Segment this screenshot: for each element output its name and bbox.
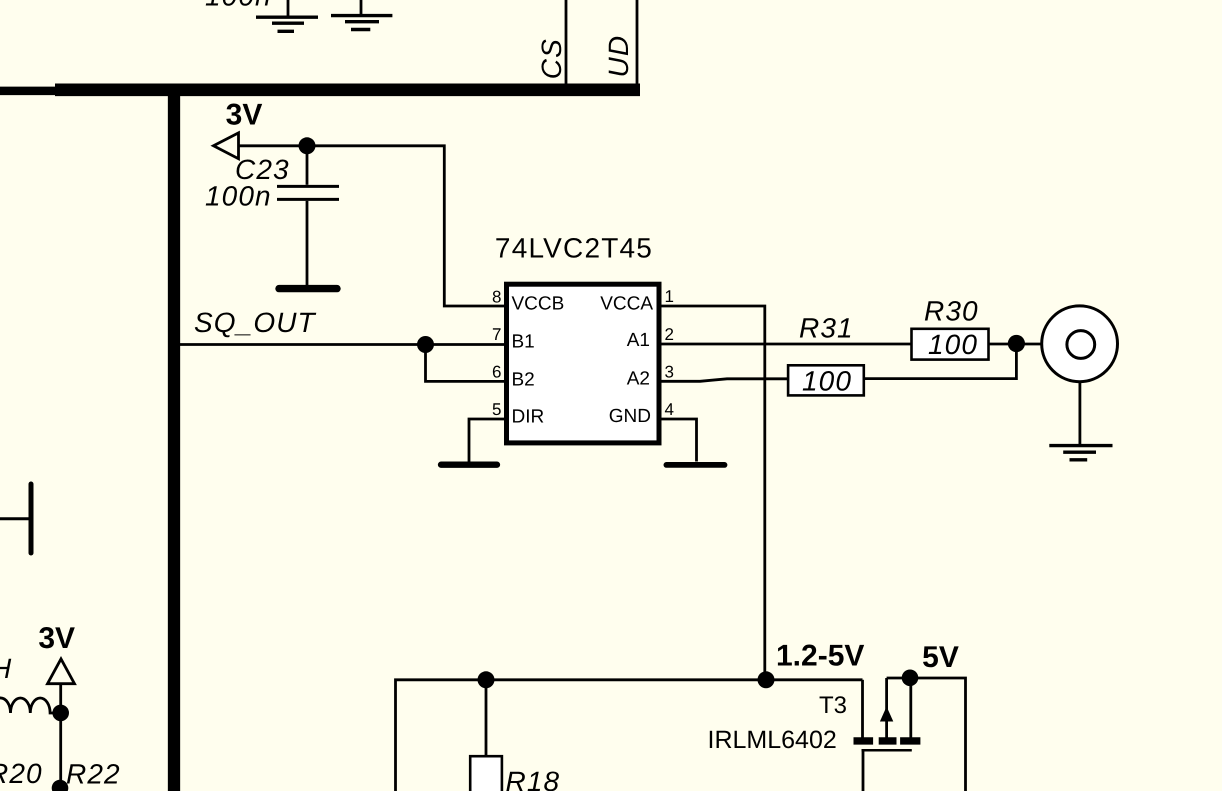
wire to B2 bbox=[426, 345, 507, 382]
svg-text:A2: A2 bbox=[627, 368, 650, 389]
junction dot 1.2-5V bbox=[758, 671, 775, 688]
wire C23 top bbox=[306, 146, 309, 185]
connector X1 inner pin bbox=[1067, 331, 1095, 359]
svg-text:1.2-5V: 1.2-5V bbox=[776, 640, 864, 673]
transistor T3 bulk wire with arrow bbox=[885, 678, 888, 740]
ground bbox=[256, 0, 318, 31]
resistor R31 body bbox=[788, 365, 864, 395]
svg-text:100n: 100n bbox=[205, 181, 272, 212]
pin names left bbox=[512, 294, 565, 428]
transistor T3 channel bars bbox=[854, 737, 921, 744]
op IC body 74LVC2T45 bbox=[507, 284, 660, 443]
wire A1 to R30 bbox=[659, 343, 912, 346]
svg-text:74LVC2T45: 74LVC2T45 bbox=[495, 233, 653, 264]
ground bbox=[1049, 446, 1112, 460]
capacitor C23 plates bbox=[277, 185, 339, 188]
junction dot coil/3V bbox=[52, 705, 69, 722]
junction dot 5V source bbox=[902, 670, 919, 687]
bus wire horizontal main bbox=[55, 84, 640, 97]
svg-text:4: 4 bbox=[665, 400, 674, 419]
capacitor plate (left edge) bbox=[29, 484, 34, 553]
svg-text:R31: R31 bbox=[799, 313, 854, 344]
svg-text:1: 1 bbox=[665, 287, 674, 306]
svg-text:100: 100 bbox=[928, 329, 978, 360]
wire capacitor left bbox=[0, 517, 29, 520]
wire 3V to VCCB bbox=[239, 146, 507, 306]
wire 3V down bbox=[59, 684, 62, 788]
svg-text:SQ_OUT: SQ_OUT bbox=[194, 307, 317, 338]
wire DIR to ground bbox=[469, 419, 506, 462]
ground bbox=[331, 0, 392, 30]
svg-text:CS: CS bbox=[536, 38, 567, 79]
junction dot R18 bbox=[478, 671, 495, 688]
svg-text:A1: A1 bbox=[627, 330, 650, 351]
ground bar GND bbox=[666, 462, 724, 468]
wire SQ_OUT to B1 bbox=[180, 343, 506, 346]
svg-text:B1: B1 bbox=[512, 331, 535, 352]
svg-text:R18: R18 bbox=[506, 766, 561, 791]
svg-text:3: 3 bbox=[665, 363, 674, 382]
svg-text:R22: R22 bbox=[66, 759, 121, 790]
svg-text:VCCB: VCCB bbox=[512, 294, 565, 315]
svg-text:7: 7 bbox=[492, 325, 501, 344]
transistor T3 gate wire down bbox=[862, 750, 865, 791]
bus wire vertical bbox=[168, 94, 180, 791]
supply 3V arrow (bottom) bbox=[48, 659, 75, 684]
wire 1.2-5V net horizontal bbox=[396, 680, 863, 791]
wire 5V down bbox=[910, 678, 966, 791]
bus wire horizontal thin-left segment bbox=[0, 87, 55, 96]
svg-text:H: H bbox=[0, 653, 12, 684]
svg-text:2: 2 bbox=[665, 325, 674, 344]
pin numbers right bbox=[665, 287, 674, 419]
pin numbers left bbox=[492, 288, 501, 420]
ground bar DIR bbox=[441, 462, 497, 468]
svg-text:100: 100 bbox=[802, 366, 852, 397]
wire to R18 bbox=[485, 680, 488, 756]
transistor T3 gate line bbox=[862, 749, 912, 752]
wire CS vertical bbox=[565, 0, 568, 87]
svg-text:GND: GND bbox=[609, 406, 651, 427]
transistor T3 bulk arrow bbox=[880, 707, 893, 722]
svg-text:5: 5 bbox=[492, 400, 501, 419]
wire A2 to R31 bbox=[659, 379, 788, 382]
wire connector to ground bbox=[1079, 382, 1082, 444]
inductor coil (partial) bbox=[0, 698, 61, 713]
svg-text:B2: B2 bbox=[512, 369, 535, 390]
svg-text:8: 8 bbox=[492, 288, 501, 307]
wire R30 to node bbox=[989, 343, 1042, 346]
wire UD vertical bbox=[636, 0, 639, 87]
svg-text:100n: 100n bbox=[205, 0, 272, 12]
junction dot 3V/C23 bbox=[299, 137, 316, 154]
svg-text:DIR: DIR bbox=[512, 407, 545, 428]
svg-text:IRLML6402: IRLML6402 bbox=[708, 726, 837, 754]
pin names right bbox=[600, 294, 653, 428]
svg-text:5V: 5V bbox=[922, 641, 959, 674]
transistor T3 source wire bbox=[909, 678, 912, 740]
wire R31 to node bbox=[864, 350, 1017, 379]
svg-text:6: 6 bbox=[492, 363, 501, 382]
transistor T3 drain wire bbox=[861, 680, 864, 740]
resistor R30 body bbox=[912, 329, 989, 360]
supply 3V arrow (top) bbox=[214, 133, 239, 159]
wire bulk to source node bbox=[887, 677, 910, 680]
ground bar under C23 bbox=[279, 285, 337, 292]
svg-text:VCCA: VCCA bbox=[600, 294, 653, 315]
svg-text:T3: T3 bbox=[819, 692, 847, 719]
wire C23 bottom bbox=[306, 201, 309, 286]
svg-text:R30: R30 bbox=[924, 295, 979, 326]
wire GND pin to ground bbox=[659, 419, 697, 462]
wire VCCA pin1 down bbox=[659, 306, 765, 680]
connector X1 outer ring bbox=[1042, 306, 1118, 382]
svg-text:3V: 3V bbox=[38, 622, 75, 655]
svg-text:R20: R20 bbox=[0, 758, 43, 789]
junction dot SQ_OUT bbox=[417, 336, 434, 353]
resistor R18 body bbox=[470, 756, 502, 791]
junction dot R20/R22 bbox=[52, 780, 69, 791]
svg-text:3V: 3V bbox=[226, 99, 263, 132]
junction dot output node bbox=[1008, 335, 1025, 352]
svg-text:UD: UD bbox=[603, 35, 634, 78]
